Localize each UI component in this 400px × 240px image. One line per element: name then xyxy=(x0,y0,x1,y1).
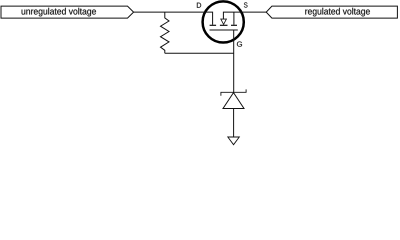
wire: unregulated net to drain, corner down inside circle xyxy=(134,12,213,25)
resistor R1 xyxy=(161,12,170,53)
drain channel contact bar xyxy=(210,24,217,26)
gate plate xyxy=(210,29,238,31)
ground symbol xyxy=(228,137,240,145)
wire: source contact drop xyxy=(233,12,235,25)
label: regulated voltage xyxy=(305,8,370,17)
zener diode cathode bar with bent ends xyxy=(221,89,246,95)
net flag: regulated voltage xyxy=(266,6,397,18)
net flag: unregulated voltage xyxy=(1,6,134,18)
bulk arrow pointing at channel xyxy=(221,19,227,24)
wire: zener anode to ground xyxy=(233,109,235,138)
zener diode triangle xyxy=(223,93,244,109)
source channel contact bar xyxy=(231,24,237,26)
label: unregulated voltage xyxy=(22,8,96,17)
wire: gate lead down to zener cathode xyxy=(233,30,235,92)
wire: resistor bottom to gate node xyxy=(165,52,234,54)
pin label G xyxy=(237,42,242,47)
wire: regulated net to source, into circle xyxy=(223,12,266,19)
pin label D xyxy=(197,3,201,8)
transistor Q1 body circle xyxy=(203,1,244,42)
middle channel bar xyxy=(220,24,228,26)
pin label S xyxy=(244,2,248,7)
